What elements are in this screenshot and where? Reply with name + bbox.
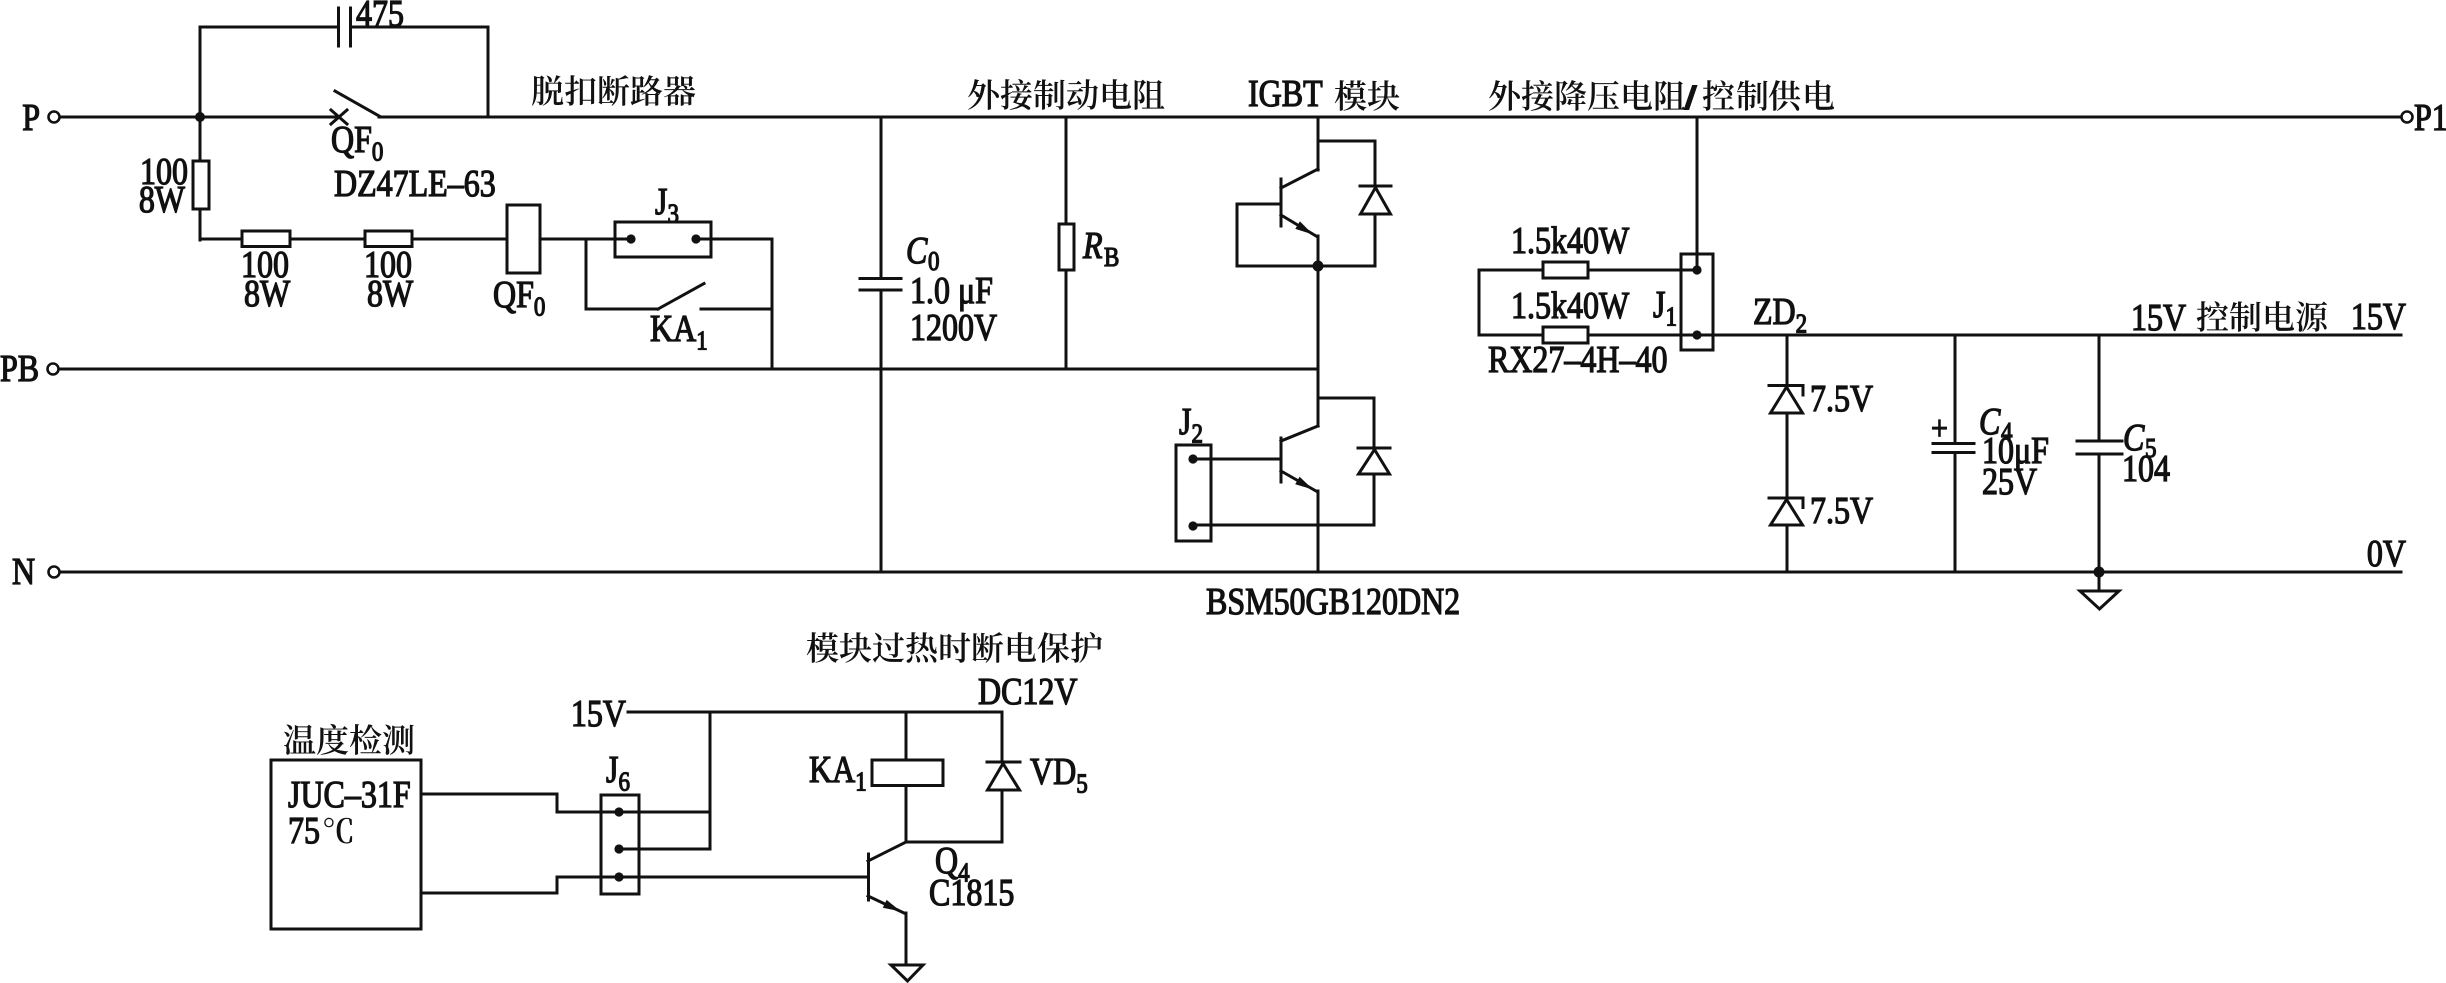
wire right drop to PB (771, 239, 774, 369)
svg-text:15V: 15V (2131, 297, 2186, 339)
wire P to J1 pin1 (1696, 117, 1699, 270)
diode lower freewheel (1373, 398, 1376, 448)
label 温度检测 (284, 724, 315, 754)
svg-text:7.5V: 7.5V (1810, 490, 1873, 532)
trip coil QF0 (507, 205, 540, 273)
wire VD5 to Q4 collector (906, 841, 1002, 844)
circuit breaker QF0 blade (335, 91, 379, 116)
svg-text:1.0 μF: 1.0 μF (910, 270, 993, 312)
wire IGBT midpoint to PB (1317, 266, 1320, 369)
svg-text:75: 75 (288, 810, 320, 852)
svg-text:475: 475 (356, 0, 404, 35)
transistor lower IGBT of U1 (1281, 426, 1318, 441)
svg-text:N: N (12, 551, 35, 593)
wire C0 to N (880, 290, 883, 572)
relay coil KA1 (905, 712, 908, 760)
node N terminal (49, 567, 60, 578)
diode upper freewheel (1374, 141, 1377, 186)
svg-text:BSM50GB120DN2: BSM50GB120DN2 (1206, 581, 1460, 623)
svg-text:P1: P1 (2414, 97, 2446, 139)
node P1 terminal (2402, 112, 2413, 123)
wire J3 to right drop (696, 238, 772, 241)
wire collector to upper diode (1318, 140, 1375, 143)
wire P rail (left of breaker) (60, 116, 339, 119)
wire 15V rail (1713, 334, 2401, 337)
svg-text:1.5k40W: 1.5k40W (1511, 285, 1629, 327)
connector J2 (1176, 445, 1211, 541)
junction 0V / ground (2094, 567, 2105, 578)
svg-text:7.5V: 7.5V (1810, 378, 1873, 420)
wire parallel left vertical (1478, 270, 1481, 335)
svg-text:15V: 15V (2351, 296, 2406, 338)
circuit breaker QF0 contact cross (331, 110, 347, 124)
svg-text:C: C (906, 230, 928, 272)
transistor Q4 C1815 (868, 842, 906, 861)
wire R2 to R3 (290, 238, 365, 241)
wire J2 pin1 to lower gate (1193, 458, 1281, 461)
junction upper emitter (1313, 261, 1324, 272)
svg-text:8W: 8W (139, 179, 185, 221)
label 外接降压电阻/控制供电 (1489, 80, 1520, 111)
svg-text:15V: 15V (571, 693, 626, 735)
svg-text:RX27–4H–40: RX27–4H–40 (1488, 339, 1667, 381)
wire sensor upper to J6 pin1 (421, 794, 710, 812)
wire PB to lower IGBT (1317, 369, 1320, 426)
wire J6 pin2 to 15V drop (619, 848, 710, 851)
svg-text:R: R (1082, 225, 1102, 267)
node P terminal (49, 112, 60, 123)
svg-text:8W: 8W (244, 273, 290, 315)
svg-text:IGBT: IGBT (1248, 73, 1323, 115)
wire ZD2b to 0V (1786, 525, 1789, 572)
wire 15V to C5 (2098, 335, 2101, 441)
label 脱扣断路器 (trip breaker) (532, 75, 563, 106)
wire snubber loop right vertical (487, 27, 490, 117)
wire P to C0 (880, 117, 883, 279)
transistor upper IGBT of U1 (1281, 169, 1318, 188)
capacitor C5 104 (2077, 440, 2122, 443)
resistor R3 100 8W (365, 231, 412, 247)
wire upper emitter node (1237, 265, 1375, 268)
wire R3 to QF0 coil (412, 238, 507, 241)
connector J6 (601, 795, 639, 894)
svg-text:DC12V: DC12V (978, 671, 1078, 713)
zener diode ZD2b 7.5V (1769, 497, 1803, 500)
svg-text:PB: PB (0, 348, 39, 390)
wire P rail (right of breaker to P1) (379, 116, 2401, 119)
wire P to IGBT collector (1317, 117, 1320, 170)
temperature sensor JUC-31F box (271, 760, 421, 929)
zener diode ZD2a 7.5V (1769, 384, 1803, 387)
svg-text:DZ47LE–63: DZ47LE–63 (334, 163, 496, 205)
ground symbol at 0V rail (2098, 572, 2101, 591)
svg-text:1.5k40W: 1.5k40W (1511, 220, 1629, 262)
resistor R2 100 8W (242, 231, 290, 247)
resistor R1 100 8W (193, 161, 209, 209)
label 外接制动电阻 (ext braking resistor) (968, 79, 999, 110)
wire lower collector to lower diode (1318, 397, 1374, 400)
capacitor 475 (337, 8, 340, 46)
svg-text:/: / (1685, 80, 1696, 116)
svg-text:B: B (1104, 243, 1119, 272)
wire N / 0V rail (60, 571, 2401, 574)
switch KA1 blade (658, 284, 704, 310)
node PB terminal (48, 364, 59, 375)
wire 15V to C4 (1954, 335, 1957, 443)
diode VD5 (1001, 712, 1004, 762)
svg-text:1200V: 1200V (910, 307, 997, 349)
wire branch to R2 (200, 238, 242, 241)
resistor R4 1.5k40W (top) (1479, 269, 1543, 272)
wire PB rail (59, 368, 1318, 371)
svg-text:104: 104 (2122, 448, 2170, 490)
resistor R5 1.5k40W (bottom) (1479, 334, 1543, 337)
wire snubber loop top right (351, 26, 488, 29)
wire upper gate loop (1237, 203, 1281, 206)
resistor RB (1059, 224, 1074, 270)
wire P to RB (1065, 117, 1068, 224)
connector J1 (1681, 254, 1713, 350)
label 模块过热时断电保护 (807, 632, 839, 663)
svg-text:P: P (22, 97, 40, 139)
wire snubber loop top left (200, 26, 338, 29)
wire lower emitter to N (1317, 525, 1320, 572)
wire lower emitter node (1195, 524, 1374, 527)
wire RB to PB (1065, 270, 1068, 369)
wire KA1 branch right (701, 308, 772, 311)
svg-text:0V: 0V (2367, 533, 2406, 575)
svg-text:8W: 8W (367, 273, 413, 315)
wire snubber loop left vertical (199, 27, 202, 117)
wire ZD2a to ZD2b (1786, 413, 1789, 498)
ground symbol at Q4 emitter (891, 965, 923, 981)
junction KA1 branch tee (585, 239, 588, 309)
wire sensor lower to J6 pin3 / Q4 base (421, 877, 868, 893)
wire aux 15V feeder (628, 711, 1002, 714)
wire R1 to branch (199, 209, 202, 240)
junction P/snubber/R1 (195, 112, 205, 122)
wire coil to J3 (540, 238, 631, 241)
capacitor C0 1.0uF 1200V (860, 277, 901, 280)
wire P junction down to R1 (199, 117, 202, 161)
wire KA1 branch left (586, 308, 658, 311)
connector J3 (615, 222, 711, 257)
wire 15V drop to J6 (709, 712, 712, 849)
wire 15V to ZD2a (1786, 335, 1789, 386)
svg-text:25V: 25V (1982, 461, 2037, 503)
svg-text:C1815: C1815 (929, 872, 1014, 914)
